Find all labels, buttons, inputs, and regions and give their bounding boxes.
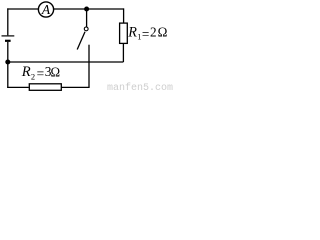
wire R2 left lead	[7, 86, 29, 88]
battery cell short plate (-)	[5, 40, 11, 42]
wire left vertical lower (battery to bottom junction)	[7, 42, 9, 62]
wire switch bottom lead (fixed contact down to R2 loop)	[88, 45, 90, 88]
label R1 = 2 ohm	[127, 24, 167, 41]
svg-text:R: R	[21, 64, 31, 80]
wire R2 loop left vertical (bottom junction down)	[7, 62, 9, 88]
wire switch top lead (junction down to switch pivot)	[86, 9, 88, 27]
wire R1 bottom lead	[122, 44, 124, 62]
ammeter A1	[38, 2, 53, 17]
svg-text:manfen5.com: manfen5.com	[107, 82, 173, 94]
wire top-left horizontal (battery top to ammeter)	[7, 8, 38, 10]
switch S pivot circle	[84, 27, 88, 31]
resistor R2 (horizontal box)	[29, 84, 61, 91]
node junction top (dot)	[84, 7, 89, 12]
node junction bottom-left (dot)	[5, 60, 10, 65]
svg-text:Ω: Ω	[158, 25, 168, 40]
wire middle horizontal (bottom junction to R1 bottom lead)	[8, 61, 124, 63]
svg-text:R: R	[127, 25, 137, 41]
svg-text:A: A	[41, 2, 51, 17]
wire ammeter to junction and to R1 corner	[54, 8, 124, 10]
wire R1 top lead (corner down to R1)	[123, 8, 125, 22]
svg-text:1: 1	[137, 31, 141, 41]
battery cell long plate (+)	[2, 35, 15, 37]
wire R2 right lead	[61, 86, 89, 88]
svg-text:2: 2	[150, 24, 157, 39]
svg-text:=: =	[37, 66, 45, 81]
switch S blade (open)	[77, 32, 85, 50]
resistor R1 (vertical box)	[120, 23, 128, 43]
svg-text:Ω: Ω	[51, 64, 61, 79]
svg-text:=: =	[142, 26, 149, 41]
label R2 = 3 ohm	[21, 64, 60, 81]
svg-text:2: 2	[31, 71, 35, 81]
wire left vertical upper (corner to battery)	[7, 8, 9, 35]
